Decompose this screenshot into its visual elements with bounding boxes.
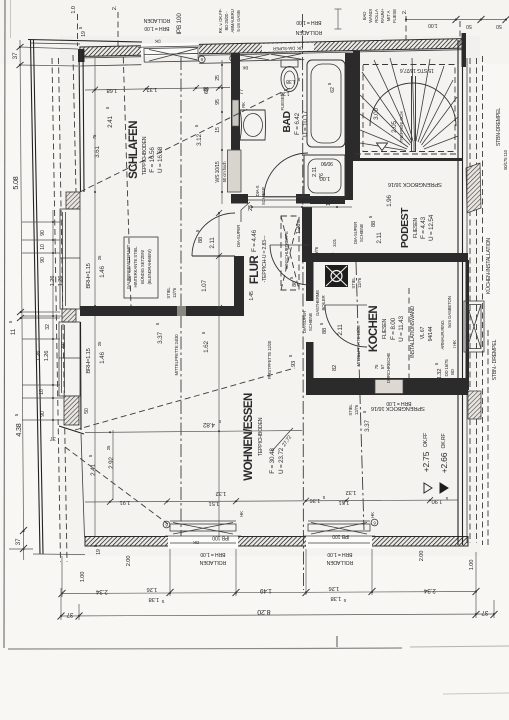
svg-text:SCHIENE: SCHIENE [359,224,364,242]
bad slider window below band [236,53,304,61]
svg-text:37: 37 [12,52,19,59]
svg-text:25: 25 [215,75,221,81]
svg-text:(BLENDRAHMEN!): (BLENDRAHMEN!) [147,249,152,285]
svg-text:TREPPENLOCH: TREPPENLOCH [399,112,404,143]
left dim ticks [17,44,28,552]
svg-text:BRH=1.15: BRH=1.15 [86,348,92,373]
dormer B corner diagonal [59,426,84,434]
svg-text:12/76: 12/76 [172,287,177,298]
sheet small tick bottom center [336,636,338,647]
radiator HK box [464,301,484,352]
stair center post [411,76,413,152]
KITCHEN FIXTURES [315,265,362,316]
svg-text:2.41: 2.41 [90,464,97,476]
sheet left border line [4,0,5,648]
svg-text:32: 32 [45,324,51,330]
right wall hatch block lower [468,391,481,419]
svg-text:90: 90 [40,257,46,263]
bottom dim line 2 [61,614,494,616]
svg-text:F = 4.46: F = 4.46 [251,229,258,252]
svg-text:1.26: 1.26 [58,276,64,286]
dashed stub 2. [117,12,119,46]
stair walk line arc [370,83,456,126]
svg-text:FLIESEN: FLIESEN [413,217,419,238]
svg-text:BRH = 1.00: BRH = 1.00 [200,551,225,557]
svg-text:DURCHREICHE: DURCHREICHE [386,353,391,384]
LEFT WALL AND DORMERS [22,49,106,537]
svg-text:VL 67: VL 67 [420,327,426,340]
left dormer dim line [52,210,54,440]
svg-text:15: 15 [215,127,221,133]
svg-text:25: 25 [97,341,102,346]
svg-text:2.11: 2.11 [312,167,318,177]
svg-text:ROLLADEN: ROLLADEN [143,17,170,23]
svg-text:25: 25 [106,445,111,450]
svg-text:BAD: BAD [281,110,293,132]
svg-text:BK: BK [242,65,248,70]
svg-text:2.34: 2.34 [96,588,108,595]
svg-text:I HK: I HK [452,340,457,348]
stiel post in W3 [177,306,186,316]
dormer B bottom jamb hatch [64,396,79,425]
svg-text:BRH=1.15: BRH=1.15 [86,263,92,288]
svg-text:10: 10 [39,389,45,395]
svg-text:19: 19 [81,31,87,37]
svg-text:ABMAUERU: ABMAUERU [230,9,235,32]
bottom window 1 frame [165,521,241,543]
dormer B window [59,322,80,396]
svg-text:50: 50 [84,408,90,414]
svg-text:+2.75: +2.75 [421,451,431,472]
stair treads fan [360,58,458,152]
svg-text:ROLLADEN: ROLLADEN [199,559,226,565]
svg-text:25: 25 [97,255,102,260]
sheet faint bottom right mark [443,693,509,694]
door kitchen arc [325,305,367,347]
svg-text:DK: DK [193,540,199,545]
left dim extension lines [9,47,85,555]
STAIR [360,58,458,187]
svg-text:SCHIENE: SCHIENE [261,187,266,205]
svg-text:1.49: 1.49 [260,587,272,594]
BOTTOM DIMENSION LINES [58,549,498,620]
svg-text:2.92: 2.92 [108,457,115,469]
svg-text:1.00: 1.00 [428,22,438,28]
svg-text:OK.RF: OK.RF [441,434,447,449]
svg-text:2.11: 2.11 [337,324,344,336]
svg-text:88: 88 [371,221,377,227]
dormer A bottom jamb hatch [62,309,76,322]
svg-text:90: 90 [40,230,46,236]
svg-text:1.26: 1.26 [329,585,339,591]
bath/stair divider wall [345,53,353,200]
svg-text:U = 11.43: U = 11.43 [398,316,405,342]
svg-text:BD 25/20 -: BD 25/20 - [224,11,229,31]
svg-text:77: 77 [239,89,245,95]
svg-text:SCHLAFEN: SCHLAFEN [128,121,140,179]
svg-text:15 STG 18/27,6: 15 STG 18/27,6 [400,67,434,73]
svg-text:RK: RK [241,102,246,108]
durchreiche opening [375,380,403,394]
svg-text:DIA-S: DIA-S [255,185,260,196]
svg-text:4.82: 4.82 [203,421,215,428]
bottom window 2 cutout [306,535,372,549]
svg-text:RAUM+: RAUM+ [380,8,385,23]
stair/podest bottom wall [355,153,458,155]
stairwell dashed outline [363,65,455,152]
svg-text:2.11: 2.11 [209,237,216,249]
svg-text:10: 10 [40,244,46,250]
wc [281,60,298,67]
svg-text:F = 4.43: F = 4.43 [420,216,427,239]
svg-text:1.38: 1.38 [331,595,341,601]
svg-text:MITTELPFETTE 24/30: MITTELPFETTE 24/30 [174,334,179,376]
wohnen leader line [272,428,293,451]
svg-text:1.26: 1.26 [36,351,42,361]
svg-text:WOHNEN/ESSEN: WOHNEN/ESSEN [243,393,255,481]
svg-text:KOCHEN: KOCHEN [368,306,380,353]
svg-text:PODEST: PODEST [399,207,411,248]
svg-text:3.37: 3.37 [157,332,164,344]
sheet bottom fold line [8,648,402,649]
left wall lower thin lines [80,322,83,430]
svg-text:8.20: 8.20 [257,608,270,617]
kitchen bottom wall [306,378,468,395]
svg-text:90: 90 [40,411,46,417]
svg-text:2.00: 2.00 [126,556,132,566]
mittelpfette axis left [180,57,182,536]
svg-text:IPB 100: IPB 100 [212,535,229,541]
svg-text:62: 62 [330,87,336,93]
svg-text:BAD: BAD [362,12,367,20]
svg-text:1.38: 1.38 [286,78,296,84]
flur east wall [302,207,312,262]
svg-text:2.05: 2.05 [391,121,398,133]
svg-text:50 cm hoch: 50 cm hoch [222,161,227,182]
svg-text:-TEPPICH-U = 2.83---: -TEPPICH-U = 2.83--- [262,235,268,282]
flur door dim line [218,213,220,308]
svg-text:76: 76 [319,173,325,179]
firstpfette axis [303,14,304,590]
svg-text:50: 50 [496,23,502,29]
bad sliding door track [248,196,296,198]
svg-text:U = 12.54: U = 12.54 [428,214,435,241]
svg-text:U = 23.72: U = 23.72 [278,447,285,474]
svg-text:12: 12 [326,200,332,206]
svg-text:FIRSTPFETTE 12/20: FIRSTPFETTE 12/20 [267,340,272,379]
svg-text:4.38: 4.38 [14,423,23,436]
WS niche [228,150,242,192]
svg-text:IPB 100: IPB 100 [176,13,183,35]
svg-text:1.96: 1.96 [386,195,393,207]
wohnen upper dim line [85,431,302,433]
svg-text:12/76: 12/76 [357,277,362,288]
svg-text:25: 25 [248,205,254,211]
svg-text:ARMAUR.RING: ARMAUR.RING [440,320,445,350]
svg-text:F = 30.48: F = 30.48 [269,448,276,474]
svg-text:OK.FF: OK.FF [423,433,429,447]
svg-text:1.00: 1.00 [80,572,86,582]
svg-text:82: 82 [332,365,338,371]
DIMENSION TEXTS AND LINES INTERIOR [84,58,458,536]
svg-text:GASTHERME: GASTHERME [315,290,320,316]
svg-text:90/90: 90/90 [321,160,333,166]
schlafen vertical dim line [94,58,96,306]
svg-text:86: 86 [292,281,298,287]
svg-text:57: 57 [380,364,385,369]
top wall hatched band [80,39,462,57]
wall schlafen/bad W1 [231,53,240,192]
kitchen side wall bump [466,260,470,390]
svg-text:DIA-SUPER: DIA-SUPER [236,225,241,247]
svg-text:TEPPICHBODEN: TEPPICHBODEN [258,417,264,456]
bad window marker circle [230,55,237,62]
eaves double line [31,40,41,554]
svg-text:20/76: 20/76 [314,246,319,257]
stair west wall [353,51,360,161]
svg-text:ROLLA: ROLLA [374,9,379,23]
svg-text:RK. v. OK.FF-: RK. v. OK.FF- [218,8,223,33]
bad side dim line [221,60,223,204]
svg-text:5cm GASBETON: 5cm GASBETON [447,296,452,327]
svg-text:GAUBENFENSTER MIT: GAUBENFENSTER MIT [126,244,131,289]
bottom extension lines [61,549,494,620]
svg-text:2.11: 2.11 [376,232,383,244]
svg-text:BOILER: BOILER [321,296,326,311]
bottom window 2 frame [303,521,375,543]
svg-text:1.32: 1.32 [437,369,443,379]
svg-text:KÜCHEN-INSTALLATION: KÜCHEN-INSTALLATION [485,238,492,294]
svg-text:WS 10/15: WS 10/15 [215,161,221,182]
svg-text:BRH = 1.00: BRH = 1.00 [296,19,321,25]
kitchen west wall upper [306,262,314,301]
svg-text:TEPPICHBODEN: TEPPICHBODEN [142,136,148,175]
svg-text:37: 37 [15,538,22,545]
svg-text:75: 75 [374,364,379,369]
INTERIOR WALLS [80,51,468,406]
dashed stub 1.0 [77,14,79,46]
svg-text:3.01: 3.01 [332,238,337,247]
svg-text:1.32: 1.32 [216,490,226,496]
LEFT DIMENSION COLUMN [8,40,85,560]
inner face line schlafen [80,57,141,58]
wohnen roof diagonal upper [75,368,295,430]
bad bottom wall stub east [296,194,310,204]
svg-text:1.36: 1.36 [310,497,320,503]
svg-text:STBN.- DREMPEL: STBN.- DREMPEL [492,339,498,380]
svg-text:2.41: 2.41 [107,116,114,128]
bathtub [307,60,345,147]
TOP EXTERIOR WALL (tilted) [80,32,463,74]
shower tray [304,155,345,197]
roof dashed line B [59,58,68,562]
bottom dim line 1 [62,592,476,594]
svg-text:37: 37 [481,609,488,616]
svg-text:F = 6.42: F = 6.42 [294,112,301,135]
svg-text:1.51: 1.51 [209,500,219,506]
inner dim slash ticks [92,85,433,505]
svg-text:1.26: 1.26 [147,586,157,592]
wohnen mid dim line [85,500,458,502]
svg-text:50: 50 [466,23,472,29]
svg-text:95: 95 [215,99,221,105]
svg-text:DK: DK [155,39,161,44]
svg-text:1.45: 1.45 [249,291,255,301]
left wall top corner block [78,49,85,62]
RIGHT ROOF EDGE DASHED LINES [469,58,471,543]
svg-text:DIA-SUPER: DIA-SUPER [353,222,358,244]
right wall double line [457,40,459,545]
gastherme boiler [325,265,348,287]
svg-text:IPB 100: IPB 100 [332,533,349,539]
svg-text:5.08: 5.08 [11,176,20,189]
svg-text:F = 8.00: F = 8.00 [390,317,397,340]
svg-text:75: 75 [328,282,333,287]
svg-text:STIEL: STIEL [351,277,356,289]
svg-text:BODEN: BODEN [308,245,313,260]
TOP MARGIN LABELS [71,5,509,47]
podest/flur south wall piece [310,196,345,204]
svg-text:19: 19 [96,549,102,555]
svg-text:FLIESEN: FLIESEN [382,318,388,339]
svg-text:+2.66: +2.66 [439,452,449,473]
mittelpfette axis right [356,262,364,530]
DOORS [192,153,367,347]
svg-text:3.12: 3.12 [196,134,203,146]
svg-text:25: 25 [330,252,335,257]
svg-text:STIEL: STIEL [166,287,171,299]
svg-text:37: 37 [66,611,73,618]
svg-text:ROLLADEN: ROLLADEN [295,29,322,35]
svg-text:INSTALLATIONSWAND: INSTALLATIONSWAND [410,306,416,358]
stair entry triangle [377,143,388,151]
svg-text:2.: 2. [402,9,408,14]
svg-text:69: 69 [204,88,210,94]
svg-text:STIEL: STIEL [348,404,353,416]
svg-text:F = 16.56: F = 16.56 [149,147,156,173]
RIGHT WALL [458,33,508,545]
svg-text:2.34: 2.34 [424,587,436,594]
svg-text:SCHIENE: SCHIENE [308,313,313,331]
svg-text:STBN-DREMPEL: STBN-DREMPEL [496,108,502,147]
svg-text:88: 88 [322,328,328,334]
svg-text:SPRENGBOCK 16/16: SPRENGBOCK 16/16 [388,181,442,187]
gauben note box [124,237,158,298]
svg-text:50: 50 [61,342,67,348]
wohnen vertical dim lines [94,316,96,536]
podest/kitchen wall W4 [302,253,468,262]
svg-text:1.68: 1.68 [107,87,117,93]
svg-text:1.32: 1.32 [346,489,356,495]
left main dim line [20,40,24,560]
washbasin [240,110,266,140]
schlafen roof diagonal [80,88,290,192]
svg-text:88: 88 [198,237,204,243]
svg-text:93: 93 [291,361,297,367]
svg-text:1.0: 1.0 [71,6,77,13]
svg-text:1.62: 1.62 [203,341,210,353]
svg-text:U = 10.17: U = 10.17 [302,110,309,137]
top wall window 1 cutout [141,42,199,56]
svg-text:FLUR: FLUR [249,255,261,285]
BATH FIXTURES [240,60,345,205]
wall schlafen/wohnen W3 [80,306,244,316]
svg-text:1.07: 1.07 [201,280,208,292]
svg-text:1.38: 1.38 [149,596,159,602]
EINSCHUBTREPPE [281,216,302,290]
svg-text:1.46: 1.46 [99,352,106,364]
svg-text:1.26: 1.26 [296,224,302,234]
svg-text:94/144: 94/144 [428,326,434,341]
svg-text:1.46: 1.46 [99,266,106,278]
svg-text:U = 16.68: U = 16.68 [157,146,164,173]
window 1 marker circle [198,56,205,63]
svg-text:1.26: 1.26 [44,351,50,361]
ROOM LABELS [124,94,457,481]
svg-text:HK: HK [370,512,375,518]
svg-text:2.: 2. [112,5,118,10]
svg-text:SPRENGBOCK 16/16: SPRENGBOCK 16/16 [371,405,425,411]
roof dashed stub C [73,55,76,192]
svg-text:2.00: 2.00 [419,551,425,561]
top-left roof edge lines [28,40,142,43]
BOTTOM EXTERIOR WALL [80,511,475,582]
LEVEL MARKERS [421,433,449,493]
left wall double line upper [79,50,81,192]
svg-text:3.37: 3.37 [364,420,371,432]
svg-text:EINSCHUBTREPPE: EINSCHUBTREPPE [284,231,289,269]
dormer A window [60,209,80,309]
schlafen top dim line [85,88,230,91]
band text gap DK DIA-SUPER [262,43,314,52]
svg-text:FLIESEN: FLIESEN [280,94,285,111]
svg-text:HINTERKANTE STIEL: HINTERKANTE STIEL [133,246,138,288]
svg-text:5 cm GASB: 5 cm GASB [236,10,241,31]
svg-text:12/76: 12/76 [354,404,359,415]
door bad (arc) [264,153,308,197]
svg-text:11: 11 [10,328,17,335]
window 1 frame [138,46,202,62]
right wall hatch block upper [466,163,481,213]
svg-text:BÜNDIG SETZEN!: BÜNDIG SETZEN! [140,250,145,284]
W1 niche upper [232,100,239,126]
svg-text:75: 75 [92,134,97,139]
svg-text:1.51: 1.51 [339,499,349,505]
svg-text:BD: BD [450,369,455,375]
svg-text:1.90: 1.90 [432,498,442,504]
svg-text:WANDI: WANDI [368,9,373,22]
bad bottom wall stub west [231,194,248,204]
svg-text:DD 15/75: DD 15/75 [444,359,449,377]
door schlafen (arc+leaf) [192,213,235,256]
dormer A top jamb hatch [66,192,80,209]
svg-text:3.00: 3.00 [373,108,380,120]
svg-text:BRH = 1.00: BRH = 1.00 [327,551,352,557]
bottom window 1 cutout [168,535,238,549]
bottom wall hatched band [85,537,468,547]
svg-text:50/175 110: 50/175 110 [503,149,508,169]
svg-text:FLIESE: FLIESE [392,9,397,23]
svg-text:1.00: 1.00 [469,560,475,570]
svg-text:BRH = 1.00: BRH = 1.00 [144,25,169,31]
svg-text:DK DIA-SUPER: DK DIA-SUPER [273,46,303,52]
door flur/podest arc [270,245,310,285]
kitchen west wall lower [306,342,314,390]
wohnen roof diagonal lower [65,447,168,524]
svg-text:DIA-SUPER: DIA-SUPER [302,311,307,333]
svg-text:ROLLADEN: ROLLADEN [326,559,353,565]
roof dashed line A [52,58,61,562]
